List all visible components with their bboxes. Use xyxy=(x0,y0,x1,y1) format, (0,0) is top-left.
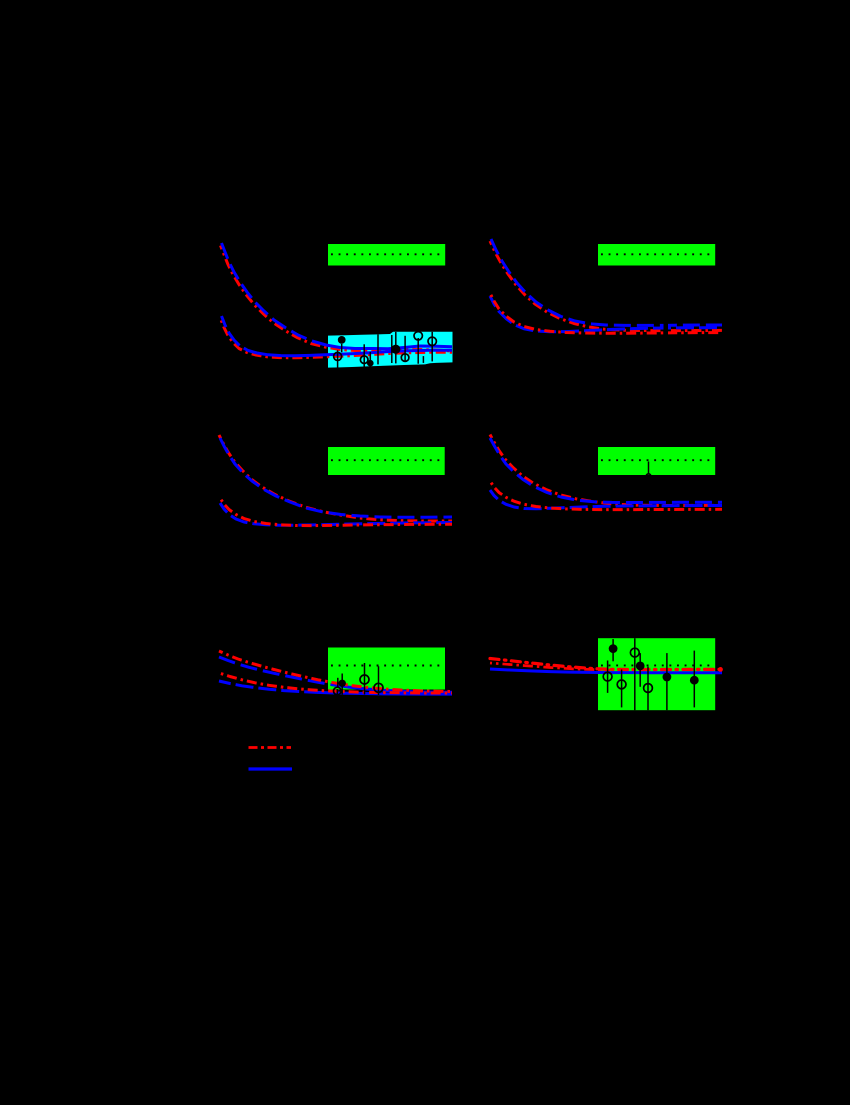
panel 2 green band box xyxy=(598,244,715,266)
panel 1 upper blue dashed curve steep part xyxy=(222,243,327,345)
panel 6 dotted zero line xyxy=(601,664,715,666)
panel 6 data point 8 filled circle xyxy=(690,651,699,708)
panel 6 blue solid line xyxy=(490,669,722,673)
panel 2 upper blue dashed curve xyxy=(491,239,722,325)
panel 1 dotted zero line xyxy=(331,253,445,255)
legend blue solid sample line xyxy=(249,767,293,770)
panel 1 lower blue dashed curve steep part xyxy=(222,316,258,353)
panel 4 lower red dash-dot curve xyxy=(490,481,722,510)
panel 5 upper red dash-dot curve xyxy=(219,651,452,692)
panel 1 data point 3 open circle xyxy=(360,344,368,366)
panel 3 green band box xyxy=(328,447,445,475)
panel 6 upper red dash-dot line xyxy=(490,659,722,670)
panel 4 upper blue dashed curve xyxy=(490,438,722,503)
panel 2 gap in tail band xyxy=(664,318,669,337)
panel 1 data point 8 open circle xyxy=(401,336,409,362)
panel 2 lower blue dashed curve xyxy=(490,296,722,332)
panel 6 data point 1 filled circle xyxy=(609,639,618,661)
panel 6 data point 6 open circle xyxy=(644,667,653,711)
panel 3 lower blue dashed curve xyxy=(220,503,452,525)
panel 1 error bar 9 xyxy=(422,356,424,363)
panel 5 data point filled circle xyxy=(339,674,346,695)
panel 1 data point 1 filled circle xyxy=(338,336,346,352)
panel 4 dotted zero line xyxy=(601,459,715,461)
panel 3 dotted zero line xyxy=(331,459,445,461)
panel 6 data point 2 open circle xyxy=(630,638,639,710)
panel 1 upper blue solid curve flat part xyxy=(326,345,452,349)
panel 1 data point 4 filled circle xyxy=(367,352,374,368)
panel 5 dotted zero line xyxy=(331,665,445,667)
legend red dash-dot sample line xyxy=(249,746,292,749)
panel 4 lower blue dashed curve xyxy=(490,490,722,509)
panel 2 upper red dash-dot curve xyxy=(490,241,722,331)
panel 6 data point 7 filled circle xyxy=(663,653,672,710)
panel 4 green band box xyxy=(598,447,715,475)
panel 1 upper red dash-dot curve xyxy=(221,246,453,352)
panel 6 data point 4 open circle xyxy=(603,661,612,693)
panel 3 upper red dash-dot curve xyxy=(219,435,452,521)
panel 5 data point open circle 2 xyxy=(374,666,383,695)
panel 2 lower red dash-dot curve xyxy=(490,293,722,333)
panel 5 upper blue solid curve flat part xyxy=(334,685,452,692)
panel 1 lower blue solid curve flat part xyxy=(257,350,452,356)
panel 4 upper red dash-dot curve xyxy=(490,435,722,506)
panel 6 green band box xyxy=(598,638,715,710)
panel 5 lower blue dashed curve steep part xyxy=(219,681,317,692)
panel 5 lower blue solid curve flat part xyxy=(317,692,452,694)
panel 6 data point 5 open circle xyxy=(617,670,626,708)
panel 5 green band box xyxy=(328,648,445,690)
panel 5 data point open circle 1 xyxy=(360,663,369,695)
panel 5 lower red dash-dot curve xyxy=(219,673,452,693)
panel 1 data point 11 open circle xyxy=(428,332,436,362)
panel 2 dotted zero line xyxy=(601,253,715,255)
panel 1 error bar 5 xyxy=(377,334,379,364)
panel 3 lower red dash-dot curve xyxy=(220,498,452,526)
panel 1 data point 10 open circle xyxy=(414,332,422,364)
panel 5 data point open circle low xyxy=(334,687,342,695)
panel 1 error bar 7 xyxy=(391,335,393,363)
panel 1 cyan uncertainty band xyxy=(328,332,453,368)
panel 5 upper blue dashed curve steep part xyxy=(219,657,334,685)
panel 1 green band box xyxy=(328,244,445,266)
panel 6 data point 3 filled circle xyxy=(636,653,645,687)
panel 1 data point 6 filled circle xyxy=(391,332,400,364)
panel 6 second red dash-dot line xyxy=(490,663,610,670)
panel 5 error bar small xyxy=(337,678,339,688)
panel 3 upper blue dashed curve xyxy=(220,438,452,517)
panel 1 data point 2 open circle xyxy=(334,350,342,367)
panel 4 data point open circle xyxy=(646,462,651,479)
panel 6 red line end dot xyxy=(718,667,723,672)
panel 1 lower red dash-dot curve xyxy=(221,319,453,358)
